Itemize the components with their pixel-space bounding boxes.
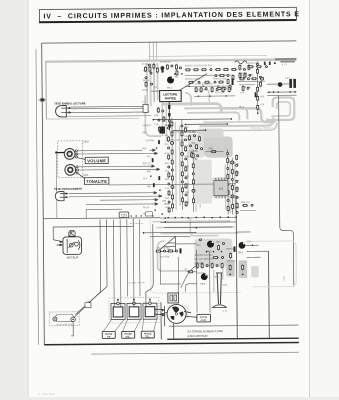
- arrows into jack circles: [117, 299, 151, 302]
- head wire lower: [71, 111, 149, 114]
- capacitor C8: [210, 69, 212, 71]
- capacitor: [175, 250, 177, 252]
- dots row: [268, 91, 296, 93]
- resistor: [251, 78, 257, 80]
- wire: [239, 84, 255, 86]
- capacitor C10: [198, 81, 200, 83]
- standing electrolytic capacitor: [212, 273, 229, 313]
- svg-text:VOLUME: VOLUME: [87, 158, 106, 163]
- page right edge line: [308, 0, 310, 397]
- extra thin wires lower web: [150, 222, 236, 237]
- wire y96: [194, 95, 235, 97]
- capacitor: [260, 77, 263, 80]
- jack area dashed bottom outline: [109, 300, 159, 320]
- small cluster right of pcb edge: [240, 202, 256, 211]
- wire y218 pcb lower: [160, 216, 236, 219]
- wire y96: [267, 94, 296, 96]
- left small dark marks column: [150, 140, 163, 215]
- dark component block upper mid: [159, 127, 165, 134]
- svg-text:OND: OND: [283, 275, 286, 281]
- components under maze y85-105 x195-240: [194, 83, 235, 97]
- svg-text:R18 C11 R19: R18 C11 R19: [213, 78, 227, 80]
- wire mid horizontal y124.5: [185, 123, 229, 125]
- trace lower blob: [194, 238, 232, 266]
- long vertical wire x236: [236, 195, 237, 338]
- right page margin strip: [310, 0, 339, 397]
- electrolytic bar 1: [289, 79, 292, 88]
- svg-text:C 41: C 41: [223, 310, 228, 312]
- resistor: [171, 149, 173, 155]
- tonalite leader line: [78, 174, 86, 180]
- jack socket 2: [127, 302, 141, 319]
- speaker eyelet right: [71, 317, 75, 321]
- svg-text:TR 6: TR 6: [238, 252, 244, 254]
- resistor R2: [149, 66, 151, 72]
- resistor: [171, 121, 173, 127]
- labels: [184, 127, 189, 204]
- mid column stack C (x192-196): [192, 150, 196, 212]
- aux wire 1: [100, 199, 152, 201]
- capacitor: [150, 72, 152, 74]
- dark bar on chain: [255, 92, 257, 97]
- extra specks band right-mid: [239, 64, 250, 75]
- transistor TR1 blob: [166, 76, 174, 89]
- frame-to-board link wires: [150, 43, 157, 60]
- dense label row mid: [195, 255, 214, 265]
- svg-text:C9 R16 C10 R17: C9 R16 C10 R17: [185, 79, 202, 81]
- resistor: [217, 244, 219, 250]
- resistor R3: [166, 64, 168, 70]
- svg-text:B 170: B 170: [282, 64, 288, 66]
- resistor: [181, 187, 183, 193]
- small label box C34: [145, 212, 153, 216]
- extra texture: near band right marks: [264, 62, 276, 66]
- resistor: [230, 252, 232, 258]
- jack wire v5: [138, 219, 141, 296]
- svg-text:C37 R58: C37 R58: [161, 256, 170, 258]
- wire arrivals with arrowheads: [147, 149, 162, 205]
- svg-text:R60 R62 C32 R63: R60 R62 C32 R63: [195, 255, 214, 257]
- capacitor: [247, 78, 249, 80]
- transistor TR2 blob: [278, 82, 283, 87]
- jack wire from C33 node: [145, 224, 153, 302]
- dotted node wire right of C33: [130, 215, 153, 217]
- resistor: [244, 72, 246, 78]
- resistor: [192, 153, 194, 159]
- label column left margin texts: [142, 125, 155, 215]
- dots: [188, 85, 218, 87]
- PRISE TEL label box: [141, 331, 154, 338]
- bottom-right gray trace loop: [248, 241, 296, 287]
- dashed link wire: [130, 222, 143, 224]
- pcb top edge dark segment: [275, 58, 297, 61]
- trace blob central: [203, 136, 233, 157]
- frame tick connector: [38, 98, 46, 101]
- capacitor: [231, 161, 234, 164]
- svg-text:C51 R82: C51 R82: [190, 151, 199, 153]
- svg-text:HP: HP: [107, 336, 111, 339]
- svg-text:TEL.: TEL.: [145, 335, 151, 338]
- bottom long line 3 (light): [91, 352, 298, 354]
- trace small steps upper mid: [185, 93, 191, 106]
- inner left rail wire: [36, 49, 39, 345]
- svg-text:C50 R80: C50 R80: [187, 132, 196, 134]
- trace descending right of governor: [214, 268, 223, 292]
- erase head wire 1: [69, 192, 152, 195]
- trace step down center: [190, 218, 218, 236]
- resistor: [172, 203, 174, 209]
- trace mid-right backdrop: [194, 160, 212, 204]
- capacitor: [247, 87, 249, 89]
- resistor: [231, 68, 237, 70]
- speaker eyelet left: [53, 317, 57, 321]
- resistor: [181, 171, 183, 177]
- dark bar: [179, 248, 181, 253]
- wire step to governor right: [185, 284, 196, 292]
- resistor: [171, 175, 173, 181]
- resistor: [200, 87, 202, 93]
- resistor R16: [188, 81, 194, 83]
- trace long u-loop mid: [199, 117, 273, 126]
- trace right edge loop inner: [271, 102, 290, 116]
- resistor: [171, 131, 173, 137]
- capacitor: [249, 74, 251, 76]
- extra specks band middle: [215, 74, 234, 94]
- svg-text:TONALITE: TONALITE: [86, 179, 107, 184]
- trace blob central upper: [198, 129, 223, 138]
- dashed rail below jacks: [109, 322, 160, 324]
- capacitor: [205, 88, 207, 90]
- long right wire with jog: [279, 95, 294, 287]
- svg-text:HAUT-PARLEUR: HAUT-PARLEUR: [56, 323, 73, 326]
- svg-text:C19 R33: C19 R33: [142, 125, 151, 127]
- svg-text:R27 C16: R27 C16: [215, 92, 224, 94]
- dots: [197, 95, 226, 97]
- dots: [229, 274, 231, 276]
- wire right cluster y244: [245, 241, 258, 246]
- resistor: [227, 78, 229, 84]
- svg-text:R37 C22: R37 C22: [143, 163, 152, 165]
- lower cluster extra labels: [196, 241, 236, 286]
- trace loop bottom wide: [213, 123, 277, 131]
- resistor R13: [215, 69, 221, 71]
- speaker cone: [55, 314, 73, 322]
- svg-text:3.A CORDE ALIMENTATION: 3.A CORDE ALIMENTATION: [187, 329, 223, 333]
- svg-text:R26: R26: [209, 147, 214, 150]
- speaker dashed box: [49, 312, 79, 326]
- jack wire v2: [119, 219, 122, 302]
- resistor R14: [223, 68, 229, 70]
- vertical dark bar: [232, 78, 234, 85]
- resistor: [239, 78, 245, 80]
- capacitor: [231, 195, 234, 198]
- title box: [39, 7, 300, 22]
- extra texture: cluster x162-184 second row: [161, 66, 182, 78]
- dot row along pcb lower edge: [167, 216, 237, 218]
- resistor: [153, 63, 155, 69]
- LECTURE RAPIDE box: [160, 90, 182, 101]
- resistor: [172, 194, 174, 200]
- svg-text:C·0.0: C·0.0: [142, 89, 149, 92]
- small components row y258: [196, 262, 223, 269]
- volume left wire with solder dot: [55, 151, 64, 153]
- leader trapezoid to label 1: [103, 319, 124, 331]
- jack socket 1: [111, 302, 125, 319]
- resistor: [232, 203, 234, 209]
- trace maze L2: [187, 112, 239, 120]
- outer frame left: [42, 43, 45, 345]
- dots: [206, 251, 223, 253]
- head wire terminating component: [142, 102, 148, 112]
- wire vertical: [181, 120, 184, 210]
- capacitor: [179, 67, 181, 69]
- trace bars bottom: [226, 260, 235, 276]
- resistor: [222, 86, 224, 92]
- extra texture: top-left chain: [143, 63, 159, 89]
- C33 label box: [119, 212, 129, 218]
- wire y119.5 with end dots: [153, 118, 233, 120]
- wire from tonalite terminal 1: [78, 165, 147, 168]
- rec/play head symbol: [56, 105, 72, 117]
- long vertical wire x268: [268, 251, 271, 338]
- svg-text:MOTEUR: MOTEUR: [67, 255, 79, 259]
- inline capacitor on speaker wire: [85, 301, 91, 307]
- capacitor: [181, 152, 184, 155]
- capacitor: [151, 83, 153, 85]
- svg-text:TETE D'EFFACEMENT: TETE D'EFFACEMENT: [54, 187, 83, 191]
- jack wire v4: [132, 219, 135, 302]
- svg-text:TR 7: TR 7: [200, 284, 206, 286]
- resistor: [176, 70, 178, 76]
- component cluster x162-182: [160, 61, 178, 70]
- resistor: [156, 67, 158, 73]
- extra texture: cluster x240-266 y76-90: [239, 75, 264, 95]
- dark bar capacitor: [161, 67, 163, 73]
- resistor: [231, 184, 233, 190]
- dark bar: [233, 246, 235, 252]
- svg-text:C33: C33: [121, 213, 127, 217]
- bottom long line 1: [169, 325, 298, 326]
- head wire: [71, 107, 143, 110]
- capacitor: [163, 250, 165, 252]
- svg-text:R3 C8: R3 C8: [143, 207, 150, 209]
- capacitor C37: [161, 67, 164, 70]
- resistor: [195, 87, 197, 93]
- resistor: [182, 197, 184, 203]
- trace verticals below cluster left: [145, 95, 161, 136]
- dashed link wire lower: [129, 282, 146, 284]
- svg-text:C43 R71: C43 R71: [197, 273, 206, 275]
- jack wire v3: [126, 219, 129, 296]
- diagonal wire from lecture box: [180, 74, 207, 90]
- resistor: [211, 262, 213, 268]
- transistor TR7: [200, 273, 208, 285]
- capacitor: [192, 189, 195, 192]
- lower cluster extra components: [199, 238, 235, 259]
- trace staircase right big: [221, 108, 275, 122]
- svg-text:AVEC MOTEUR: AVEC MOTEUR: [187, 334, 207, 338]
- resistor: [155, 250, 161, 252]
- mid top cluster between 238-268 y72-96: [237, 61, 265, 114]
- wire vertical: [171, 118, 174, 212]
- governor wheel: [160, 304, 191, 323]
- bottom long line 2 (dark): [167, 338, 298, 339]
- capacitor C12: [265, 66, 267, 68]
- wire below lecture box: [168, 101, 171, 130]
- trace hook lower left: [157, 241, 190, 271]
- PRISE HP label box: [102, 331, 115, 338]
- trace top horizontal run: [161, 104, 221, 115]
- resistor: [211, 86, 213, 92]
- capacitor: [148, 64, 150, 66]
- resistor: [192, 179, 194, 185]
- trace maze L1: [184, 108, 247, 120]
- resistor: [228, 86, 230, 92]
- outer frame bottom: [44, 342, 299, 344]
- trace right column vertical: [225, 159, 235, 213]
- pcb left edge: [45, 61, 48, 119]
- transistor TR6: [238, 242, 246, 254]
- motor internal terminals: [67, 239, 80, 253]
- erase head symbol: [55, 191, 68, 200]
- motor body: [63, 237, 82, 255]
- resistor: [181, 131, 183, 137]
- left dense row near y252: [155, 248, 181, 259]
- wire into governor from left arrows: [154, 309, 165, 317]
- resistor: [221, 262, 223, 268]
- capacitor: [231, 178, 233, 180]
- motor suppressor on top: [69, 230, 75, 236]
- TONALITE label box: [84, 178, 109, 185]
- resistor: [181, 141, 183, 147]
- jack socket 3: [143, 302, 157, 319]
- wire mid horizontal y130.5: [172, 129, 206, 131]
- capacitor: [171, 185, 174, 188]
- leader trapezoid to label 2: [123, 319, 141, 331]
- svg-text:R5 C6: R5 C6: [143, 80, 150, 82]
- resistor R1: [144, 66, 146, 72]
- svg-text:4 – 10 R 4510: 4 – 10 R 4510: [38, 392, 55, 396]
- resistor: [201, 263, 203, 269]
- governor to prise alim leader: [186, 316, 198, 317]
- vertical dashed line: [153, 62, 155, 102]
- resistor R20: [248, 66, 254, 68]
- head wire pair: [71, 105, 143, 108]
- motor lead arrows: [53, 240, 63, 247]
- capacitor: [251, 204, 253, 206]
- trace lower web horizontals: [152, 221, 238, 234]
- PRISE ALIM label box: [197, 314, 211, 322]
- capacitor: [222, 257, 224, 259]
- suppressor box 3E: [168, 293, 179, 303]
- trace between columns: [196, 158, 200, 212]
- wire from volume terminal 2: [78, 152, 150, 155]
- svg-text:R61 C31 R64 C35: R61 C31 R64 C35: [195, 259, 214, 261]
- volume leader line: [78, 158, 87, 160]
- wire from volume terminal 1: [77, 149, 142, 152]
- volume ground wire down: [55, 153, 58, 219]
- resistor R17: [204, 81, 210, 83]
- page left edge shade: [27, 0, 29, 397]
- resistor: [212, 257, 218, 259]
- head shield wire: [65, 115, 151, 118]
- speaker wire diagonal 1: [73, 220, 101, 318]
- resistor R11: [193, 69, 199, 71]
- components left of wire: [154, 107, 165, 132]
- svg-text:TETE ENREG/ LECTURE: TETE ENREG/ LECTURE: [54, 101, 86, 105]
- wire y232.6: [143, 232, 197, 234]
- capacitor: [171, 141, 174, 144]
- gray part labels under band: [280, 61, 295, 63]
- vertical resistor chain x258: [256, 61, 258, 113]
- resistor: [192, 163, 194, 169]
- resistor R10: [185, 69, 191, 71]
- svg-text:R56 C36 R57: R56 C36 R57: [156, 248, 170, 250]
- wire under tonalite going right: [109, 184, 236, 185]
- transistor TR5: [206, 241, 214, 254]
- potentiometer volume body: [64, 148, 78, 159]
- capacitor: [181, 125, 183, 127]
- trace IC area patch: [212, 177, 230, 197]
- pcb lower-left edge: [46, 117, 139, 120]
- R26 resistor mid: [206, 147, 224, 153]
- wire loop above suppressor: [160, 252, 181, 293]
- capacitor C4: [171, 65, 173, 67]
- resistor: [242, 204, 248, 206]
- svg-text:C17 R30 C18 R31: C17 R30 C18 R31: [195, 84, 214, 86]
- resistor: [231, 168, 233, 174]
- cluster right of inductor: [246, 63, 268, 68]
- pcb top edge gray band: [46, 58, 296, 63]
- capacitor: [206, 265, 208, 267]
- capacitor: [222, 243, 224, 245]
- svg-text:C20 R35: C20 R35: [146, 140, 155, 142]
- wire from tonalite terminal 2: [78, 168, 151, 171]
- top right cluster: [267, 61, 297, 96]
- long thin wire above pcb band: [149, 55, 267, 56]
- wire y85: [267, 83, 289, 85]
- cord label text: [187, 329, 223, 338]
- resistor: [167, 250, 173, 252]
- trace parallel loop lower: [203, 118, 267, 122]
- svg-text:IC-1: IC-1: [239, 105, 244, 109]
- svg-text:C37 R9 C4: C37 R9 C4: [160, 61, 172, 63]
- right double column chain: [227, 149, 239, 214]
- IC2 block: [214, 177, 228, 198]
- wire from tr7 down to governor: [181, 266, 196, 288]
- svg-text:UR2: UR2: [84, 140, 90, 144]
- resistor: [242, 85, 244, 91]
- resistor: [239, 72, 241, 78]
- resistor R4: [175, 64, 177, 70]
- pcb bottom edge left wing: [43, 218, 160, 219]
- capacitor: [192, 173, 194, 175]
- components on gray bars: [227, 260, 244, 275]
- capacitor: [214, 81, 216, 83]
- faint big region outline around lower pcb: [150, 217, 241, 293]
- wire joining row: [185, 74, 231, 76]
- speaker wire diagonal 2: [75, 220, 108, 315]
- svg-text:RAPIDE: RAPIDE: [165, 96, 176, 100]
- jack wire v1: [112, 219, 115, 302]
- svg-text:C38 C39: C38 C39: [227, 260, 236, 262]
- row of horizontal resistors with labels: [185, 65, 231, 83]
- capacitor: [199, 239, 201, 241]
- chain end dot: [257, 112, 259, 114]
- potentiometer tonalite body: [65, 164, 79, 175]
- left column stack A (x172): [164, 118, 174, 212]
- labels beside: [164, 125, 170, 209]
